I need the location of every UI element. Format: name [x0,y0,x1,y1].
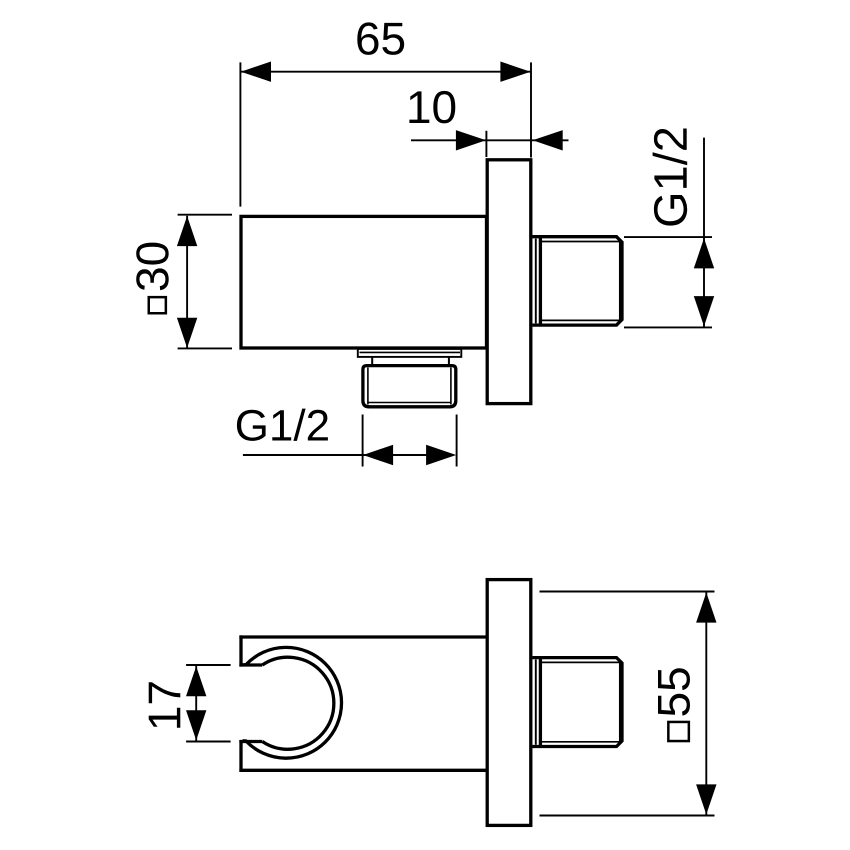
dimension G1/2 right: vertical line [703,138,705,328]
right connector end face line (bottom view) [535,660,537,745]
body (top view, 65mm long square tube) [241,216,487,348]
holder slot top line [239,663,262,666]
right connector thread crest top line (bottom view) [542,661,620,663]
right connector thread crest bottom line (top view) [542,319,620,321]
bottom outlet neck left line (top view) [371,357,373,365]
dimension 55 square symbol [668,722,689,741]
wall plate (bottom view) [487,580,531,826]
dimension G1/2 bottom: label [237,409,328,441]
dimension 55 vertical line [705,592,707,815]
right connector thread crest top line (top view) [542,241,620,243]
dimension 17 line [195,666,197,741]
dimension 55 down arrowhead [696,784,716,814]
dimension G1/2 right: down arrowhead [694,296,714,326]
dimension 65 left arrowhead [241,62,271,82]
dimension G1/2 bottom: extension line left [362,415,364,467]
dimension G1/2 bottom: leader and dimension line [243,454,429,456]
dimension 17 down arrowhead [186,710,206,740]
dimension 65 right arrowhead [500,62,530,82]
wall plate (top view, 10mm thick) [487,160,531,404]
dimension 10 label [409,91,455,124]
dimension 17 top tick [186,664,231,666]
right connector end face line (top view) [535,239,537,324]
body (bottom view) bottom edge [239,769,487,772]
dimension 65 label [357,22,404,55]
right connector thread outline (top view) [533,237,623,325]
bottom outlet chamfer right line (top view) [450,368,452,405]
dimension G1/2 right: top tick [624,236,712,238]
dimension 30 bottom tick [178,347,232,349]
dimension 65 line [240,71,531,73]
bottom outlet collar inner line (top view) [360,351,461,353]
holder outer arc [243,647,342,758]
dimension 10 line [411,139,569,141]
right connector thread crest bottom line (bottom view) [542,741,620,743]
dimension 65 extension line right [530,62,532,157]
dimension 55 top tick [540,591,715,593]
dimension 17 bottom tick [186,741,231,743]
dimension 17 label (rotated) [149,682,181,727]
right connector left border (bottom view) [539,658,542,747]
bottom outlet inner bottom line (top view) [369,402,451,404]
dimension 65 extension line left [239,62,241,206]
body (bottom view) left edge lower segment [239,740,242,772]
dimension G1/2 bottom: left arrowhead [363,445,393,465]
bottom outlet collar (top view) [358,349,462,357]
body (bottom view) top edge [239,635,487,638]
dimension 10 right arrowhead [533,130,563,150]
right connector left border (top view) [539,237,542,325]
right connector chamfer line (top view) [619,242,621,321]
holder inner arc [262,657,334,749]
dimension 55 bottom tick [540,815,715,817]
dimension 30 line [186,216,188,348]
right connector chamfer line (bottom view) [619,662,621,741]
bottom outlet thread outline (top view) [363,366,456,407]
dimension 10 left arrowhead [456,130,486,150]
dimension 55 up arrowhead [696,593,716,623]
dimension G1/2 bottom: extension line right [456,415,458,467]
dimension G1/2 right: bottom tick [624,326,712,328]
dimension 30 bottom arrowhead [177,318,197,348]
dimension 30 label (rotated, square symbol + 30) [136,243,169,291]
body (bottom view) left edge upper segment [239,635,242,666]
bottom outlet neck right line (top view) [448,357,450,365]
dimension 30 square symbol [149,297,166,313]
holder slot bottom line [239,740,262,743]
dimension 55 label (rotated, square symbol + 55) [658,668,690,715]
dimension G1/2 right: label (rotated) [653,129,688,226]
dimension G1/2 right: up arrowhead [694,238,714,268]
dimension G1/2 bottom: right arrowhead [426,445,456,465]
dimension 17 up arrowhead [186,666,206,696]
right connector thread outline (bottom view) [533,658,623,747]
dimension 30 top arrowhead [177,216,197,246]
dimension 30 top tick [178,214,232,216]
bottom outlet chamfer left line (top view) [367,368,369,405]
dimension 10 extension line [485,131,487,157]
